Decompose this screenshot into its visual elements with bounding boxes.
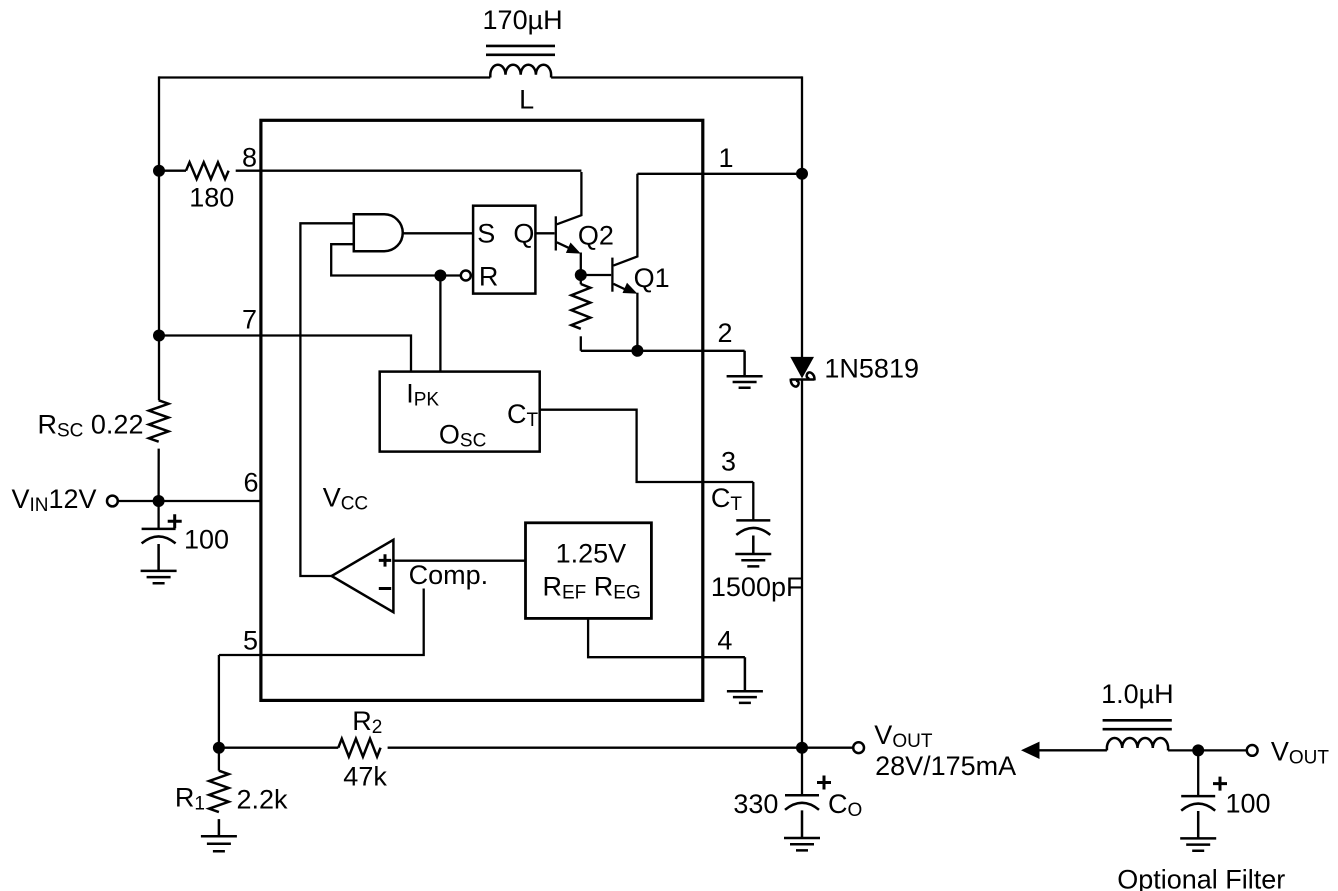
svg-text:170µH: 170µH [483, 5, 563, 35]
node: pin 8 junction on left rail [153, 165, 165, 177]
wire: output rail down to diode [801, 76, 803, 357]
wire: oscillator CT to pin 3 [540, 410, 754, 482]
wire: R2 to output node [388, 747, 802, 749]
wire: diode cathode to output node [801, 380, 803, 748]
wire: pin 8 into IC to Q2 collector [236, 170, 582, 172]
svg-text:Q2: Q2 [578, 220, 614, 250]
svg-text:180: 180 [189, 183, 234, 213]
AND gate [354, 214, 403, 251]
latch S/R box [473, 206, 535, 294]
resistor: Q2 emitter to pin 2 [571, 284, 590, 329]
svg-text:S: S [477, 219, 495, 249]
svg-text:47k: 47k [343, 762, 387, 792]
svg-text:Q1: Q1 [634, 263, 670, 293]
node: Q2 emitter / Q1 base junction [575, 269, 587, 281]
transistor Q1 [612, 174, 669, 351]
ground (pin 4) [727, 657, 763, 703]
svg-text:6: 6 [243, 468, 258, 498]
output capacitor CO 330uF [733, 748, 862, 821]
wire: pin 6 VIN input [159, 500, 261, 502]
inversion bubble at R input [461, 271, 471, 281]
oscillator block OSC with Ipk and CT [380, 372, 540, 452]
wire: AND output to latch S input [403, 232, 473, 234]
svg-text:RSC 0.22: RSC 0.22 [38, 410, 144, 442]
svg-text:8: 8 [242, 142, 257, 172]
resistor RSC 0.22 [38, 400, 169, 441]
svg-text:2.2k: 2.2k [237, 785, 289, 815]
svg-text:1.25V: 1.25V [556, 539, 627, 569]
svg-text:4: 4 [717, 626, 732, 656]
svg-text:1: 1 [719, 143, 734, 173]
wire: comparator output up to AND gate input 1 [300, 223, 353, 576]
wire: pin 2 to ground [581, 350, 745, 352]
wire: left input rail [157, 76, 160, 501]
node: pin 1 junction on output rail [796, 168, 808, 180]
node: reset line junction [434, 270, 446, 282]
ground (pin 2) [727, 351, 763, 388]
wire: comparator + input to reference [393, 560, 525, 562]
wire: reference block to pin 4 [588, 618, 745, 657]
svg-text:Comp.: Comp. [409, 560, 489, 590]
svg-text:28V/175mA: 28V/175mA [875, 751, 1016, 781]
IC package boundary [261, 120, 703, 700]
wire: latch Q output to Q2 base [535, 232, 554, 234]
node: pin 7 junction on left rail [153, 330, 165, 342]
svg-text:Q: Q [513, 219, 534, 249]
wire: filter inductor to VOUT terminal [1168, 749, 1247, 751]
wire: pin 5 feedback into comparator [219, 589, 424, 656]
node: filter junction [1192, 744, 1204, 756]
svg-text:100: 100 [1226, 789, 1271, 819]
comparator [332, 540, 489, 612]
wire: top rail from input node to inductor L [159, 76, 490, 78]
wire: Q1 base [581, 274, 611, 276]
optional filter arrow [1021, 742, 1107, 759]
svg-text:100: 100 [184, 525, 229, 555]
terminal VIN 12V [12, 484, 159, 516]
svg-text:R: R [479, 262, 499, 292]
transistor Q2 [556, 172, 614, 284]
ground (R1) [201, 819, 237, 851]
wire: reset line from latch R to AND gate input 2 [331, 244, 462, 275]
ground (CT capacitor) [735, 536, 771, 567]
svg-text:1500pF: 1500pF [711, 572, 803, 602]
node: feedback divider junction [213, 742, 225, 754]
svg-text:L: L [519, 85, 534, 115]
wire: output node to terminal [802, 747, 853, 749]
svg-text:330: 330 [733, 789, 778, 819]
terminal VOUT (filter) [1247, 737, 1330, 769]
filter inductor 1.0uH [1101, 679, 1174, 750]
svg-text:VIN12V: VIN12V [12, 484, 97, 516]
svg-text:5: 5 [243, 626, 258, 656]
node: VIN junction [153, 495, 165, 507]
node: Q1 emitter junction on pin 2 rail [631, 345, 643, 357]
svg-text:7: 7 [242, 304, 257, 334]
wire: top rail from inductor to output rail [551, 76, 802, 78]
wire: pin 5 drop to feedback divider [218, 655, 220, 748]
svg-text:2: 2 [718, 318, 733, 348]
diode 1N5819 [790, 354, 919, 387]
svg-text:1.0µH: 1.0µH [1101, 679, 1174, 709]
wire: pin 1 to switch rail [637, 173, 802, 175]
ground (CO) [784, 810, 820, 850]
ground (input cap) [141, 544, 177, 583]
svg-text:Optional Filter: Optional Filter [1117, 865, 1285, 891]
svg-text:3: 3 [721, 446, 736, 476]
wire: pin 7 to oscillator [159, 336, 411, 372]
svg-text:1N5819: 1N5819 [824, 354, 919, 384]
resistor 180 [159, 162, 234, 212]
wire: reset junction down to oscillator [439, 276, 441, 372]
reference block 1.25V REF REG [526, 523, 652, 619]
inductor L 170uH [483, 5, 563, 115]
resistor R2 47k [338, 706, 387, 792]
filter capacitor 100uF [1181, 750, 1270, 818]
capacitor CT 1500pF [711, 482, 803, 602]
ground (filter cap) [1180, 811, 1216, 851]
resistor R1 2.2k [175, 748, 288, 815]
node: output junction [796, 742, 808, 754]
input capacitor 100uF [142, 501, 229, 555]
terminal VOUT 28V/175mA [853, 720, 1016, 781]
wire: resistor bottom corner to pin 2 rail [580, 336, 582, 351]
wire: feedback node to R2 [219, 747, 338, 749]
